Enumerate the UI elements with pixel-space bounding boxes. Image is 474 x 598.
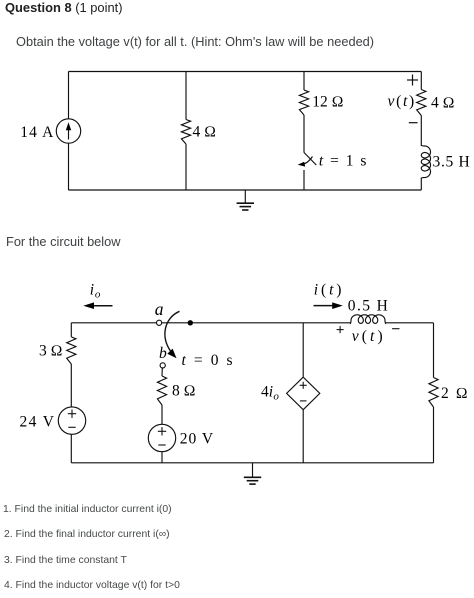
prompt line <box>16 34 374 49</box>
ground circuit1 <box>244 190 246 203</box>
label minus v(t) c2 <box>392 328 399 330</box>
svg-text:v(t): v(t) <box>352 328 386 345</box>
dep source plus <box>300 384 307 386</box>
svg-text:3.5 H: 3.5 H <box>433 154 471 171</box>
svg-text:3 Ω: 3 Ω <box>39 343 63 360</box>
wire bottom circuit1 <box>69 189 422 191</box>
resistor R 4ohm right <box>417 90 426 116</box>
wire between resistor and inductor <box>420 116 422 147</box>
wire top right segment <box>386 322 434 324</box>
svg-text:v(t): v(t) <box>388 93 416 110</box>
wire left branch top <box>70 323 72 337</box>
node b circle <box>160 363 165 368</box>
wire below inductor <box>420 178 422 191</box>
dependent source diamond <box>287 377 320 410</box>
svg-text:io: io <box>90 282 101 301</box>
svg-text:4 Ω: 4 Ω <box>431 95 455 112</box>
label plus v(t) <box>407 79 418 81</box>
wire resistor to source <box>161 405 163 424</box>
arrow i(t) <box>314 305 335 307</box>
ground circuit2 <box>252 463 254 478</box>
heading: Question 8 (1 point) <box>5 0 123 15</box>
wire below switch <box>303 170 305 190</box>
wire dep branch top <box>302 323 304 377</box>
switch SW1 blade <box>304 153 316 166</box>
wire mid branch lower <box>185 144 187 190</box>
svg-text:t = 0 s: t = 0 s <box>182 352 235 369</box>
label minus v(t) <box>409 122 418 124</box>
wire 24V to bottom <box>70 434 72 463</box>
wire 2ohm to bottom <box>433 407 435 463</box>
wire top left segment <box>71 322 156 324</box>
svg-text:14 A: 14 A <box>20 124 54 141</box>
svg-text:i(t): i(t) <box>314 281 345 298</box>
voltage source 24V circle <box>58 407 85 434</box>
current source I1 circle <box>56 119 80 143</box>
wire b to resistor <box>161 368 163 376</box>
wire source to bottom <box>161 452 163 463</box>
wire between 12ohm and switch <box>303 115 305 153</box>
svg-text:20 V: 20 V <box>180 430 214 447</box>
svg-text:b: b <box>159 345 167 362</box>
wire bottom circuit2 <box>71 462 433 464</box>
wire left branch lower <box>68 143 70 190</box>
svg-text:4 Ω: 4 Ω <box>193 124 217 141</box>
switch SW1 arrow <box>303 157 313 165</box>
wire 3ohm to 24V <box>70 364 72 407</box>
svg-text:t = 1 s: t = 1 s <box>319 153 368 170</box>
wire top circuit1 <box>69 71 422 73</box>
resistor R 3ohm <box>67 337 76 364</box>
junction dot <box>188 320 193 325</box>
wire dep branch bottom <box>302 410 304 463</box>
20V minus <box>158 444 165 446</box>
voltage source 20V circle <box>148 424 175 451</box>
svg-text:0.5 H: 0.5 H <box>348 297 389 314</box>
svg-text:12 Ω: 12 Ω <box>312 93 343 110</box>
20V plus <box>158 430 166 432</box>
dep source minus <box>300 400 307 402</box>
wire right branch top <box>420 72 422 90</box>
inductor L 3.5H coil <box>421 145 430 179</box>
label plus v(t) c2 <box>337 329 344 331</box>
resistor R 12ohm <box>299 90 308 115</box>
wire mid branch upper <box>185 72 187 120</box>
node a circle <box>157 320 162 325</box>
24V plus <box>68 413 76 415</box>
current source I1 arrow <box>68 128 70 140</box>
svg-text:24 V: 24 V <box>20 413 56 430</box>
svg-text:8 Ω: 8 Ω <box>172 383 196 400</box>
svg-text:a: a <box>155 299 164 319</box>
wire top mid segment <box>162 322 351 324</box>
svg-text:4io: 4io <box>261 383 279 402</box>
inductor L 0.5H coil <box>350 315 386 324</box>
resistor R 4ohm middle <box>181 120 190 145</box>
wire right branch top <box>433 323 435 378</box>
resistor R 2ohm <box>429 378 438 408</box>
switch SW2 arc <box>165 311 180 352</box>
For the circuit below <box>6 234 121 249</box>
resistor R 8ohm <box>157 376 166 405</box>
wire left branch upper <box>68 72 70 119</box>
svg-text:2 Ω: 2 Ω <box>441 385 469 402</box>
wire 12ohm branch upper <box>303 72 305 91</box>
arrow i_o <box>92 305 113 307</box>
question list <box>3 504 172 516</box>
24V minus <box>68 426 75 428</box>
